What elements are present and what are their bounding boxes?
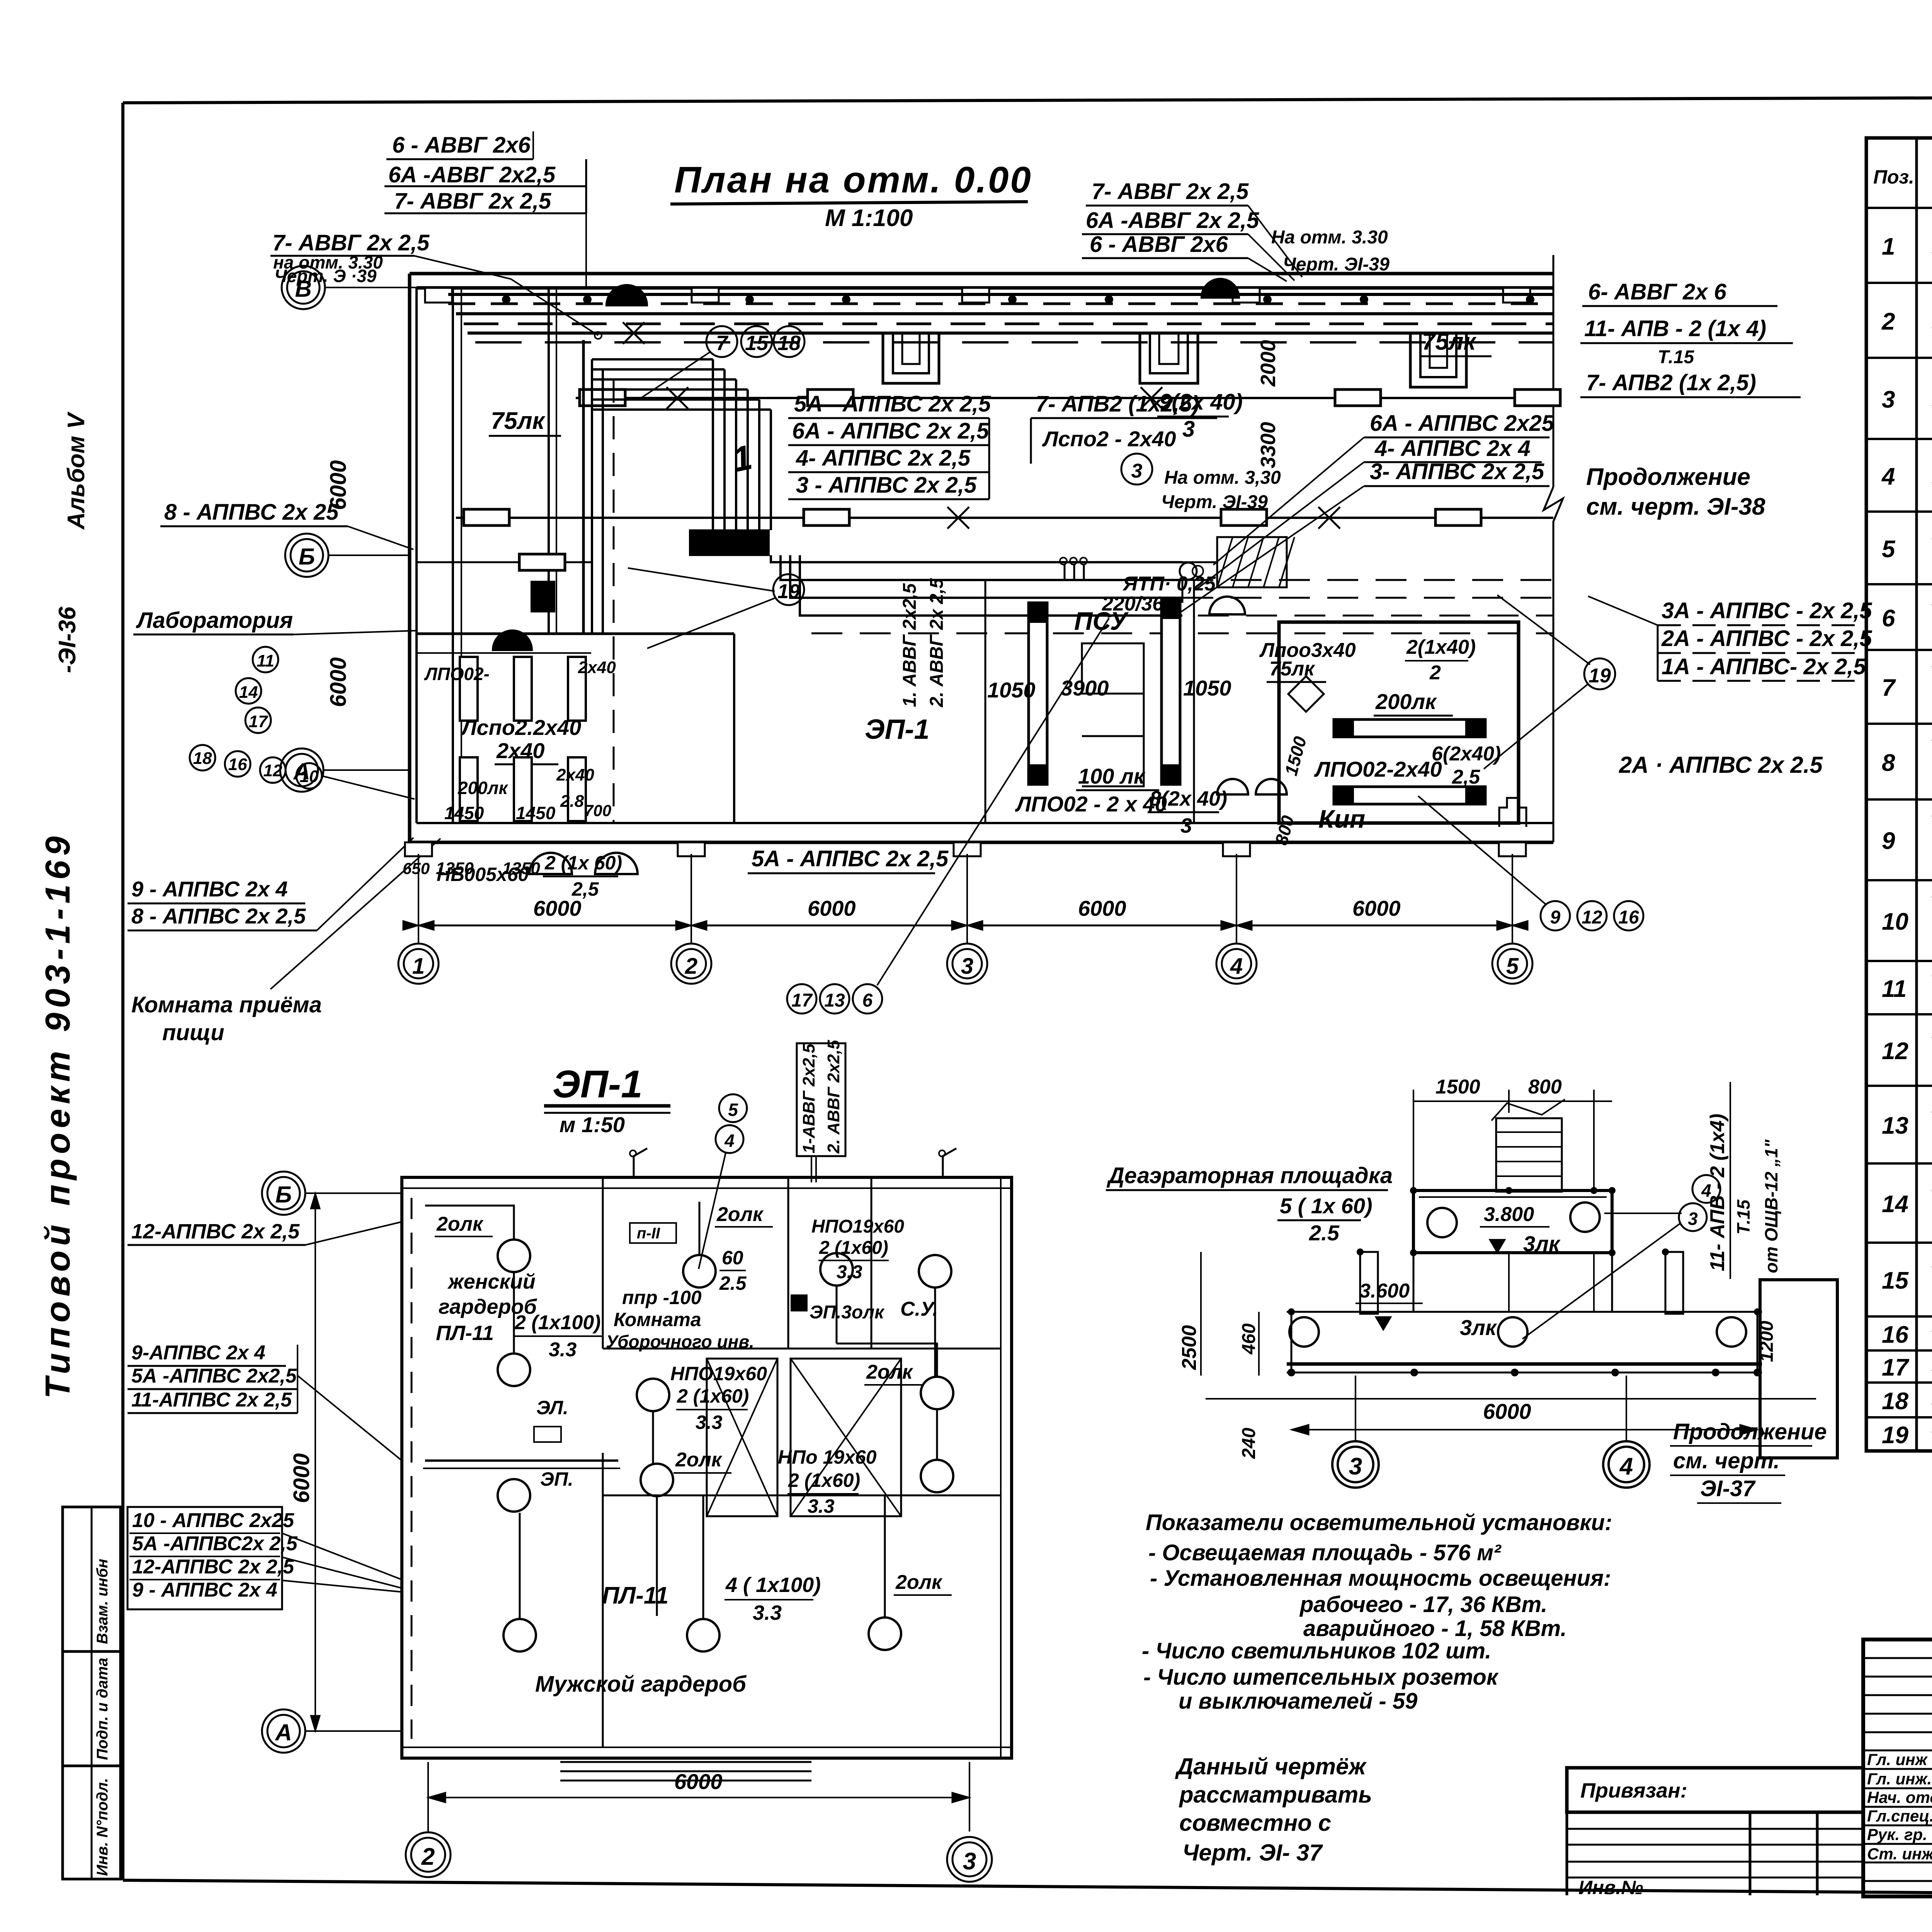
svg-text:200лк: 200лк <box>1375 689 1437 714</box>
svg-text:ПЛ-11: ПЛ-11 <box>602 1582 668 1609</box>
svg-text:3- АППВС 2х 2,5: 3- АППВС 2х 2,5 <box>1370 459 1544 484</box>
svg-text:Мужской гардероб: Мужской гардероб <box>535 1672 747 1697</box>
svg-text:ПЛ-11: ПЛ-11 <box>436 1321 494 1345</box>
label 75лк left room <box>489 408 561 436</box>
svg-text:НБ005х60: НБ005х60 <box>437 864 529 885</box>
svg-text:650: 650 <box>403 859 430 878</box>
svg-text:3.3: 3.3 <box>837 1262 862 1282</box>
svg-text:Комната: Комната <box>614 1309 701 1330</box>
svg-text:Типовой проект 903-1-169: Типовой проект 903-1-169 <box>39 832 77 1399</box>
svg-text:6000: 6000 <box>1352 896 1401 920</box>
mid cable label stack (5А 6А 4 3) <box>788 391 991 499</box>
grid circle 2 <box>406 1832 451 1877</box>
deaerator grid circles 3 and 4 <box>1332 1376 1650 1488</box>
svg-text:6000: 6000 <box>674 1769 723 1794</box>
svg-text:совместно с: совместно с <box>1179 1810 1331 1836</box>
svg-text:19: 19 <box>1588 665 1611 687</box>
svg-text:рабочего - 17, 36 КВт.: рабочего - 17, 36 КВт. <box>1299 1592 1548 1617</box>
grid circle А (ЭП-1) <box>262 1709 402 1753</box>
КИП lamp bars <box>1334 719 1485 804</box>
svg-text:9 - АППВС 2х 4: 9 - АППВС 2х 4 <box>132 1579 277 1601</box>
svg-text:17: 17 <box>249 712 269 731</box>
junction dots on wiring band <box>502 295 1534 304</box>
stairs bottom <box>560 1762 811 1781</box>
svg-text:9(2х 40): 9(2х 40) <box>1159 389 1243 415</box>
svg-text:3.3: 3.3 <box>753 1601 782 1624</box>
svg-text:6- АВВГ 2х 6: 6- АВВГ 2х 6 <box>1588 279 1727 304</box>
svg-text:1050: 1050 <box>1183 676 1231 700</box>
svg-text:от ОЩВ-12 „1": от ОЩВ-12 „1" <box>1761 1139 1781 1273</box>
svg-text:18: 18 <box>1882 1388 1908 1415</box>
dashed wires to right rooms <box>811 616 1553 633</box>
chimney / ladder <box>1492 1099 1565 1192</box>
svg-text:Рук. гр.: Рук. гр. <box>1867 1825 1927 1844</box>
svg-text:2. АВВГ 2х2,5: 2. АВВГ 2х2,5 <box>824 1040 843 1154</box>
svg-text:3: 3 <box>963 1848 976 1875</box>
svg-text:3: 3 <box>1182 417 1195 442</box>
svg-text:9-АППВС 2х 4: 9-АППВС 2х 4 <box>131 1342 265 1364</box>
svg-text:18: 18 <box>193 749 212 768</box>
svg-text:На отм. 3.30: На отм. 3.30 <box>1271 227 1388 248</box>
svg-text:11- АПВ - 2 (1х 4): 11- АПВ - 2 (1х 4) <box>1584 316 1766 341</box>
top-left cable label stack <box>384 131 586 288</box>
dims 1500 800 vertical <box>1271 734 1310 847</box>
table header text <box>1873 145 1932 210</box>
svg-text:-ЭI-36: -ЭI-36 <box>54 606 81 673</box>
svg-text:1450: 1450 <box>444 803 484 823</box>
svg-text:Уборочного инв.: Уборочного инв. <box>606 1332 754 1352</box>
svg-text:220/36: 220/36 <box>1102 593 1164 615</box>
circles 9 12 16 <box>1418 796 1643 930</box>
svg-text:17: 17 <box>1882 1354 1909 1381</box>
svg-text:19: 19 <box>1882 1422 1908 1449</box>
Продолжение см. черт. ЭI-38 <box>1586 464 1765 520</box>
label Комната приёма пищи <box>131 838 440 1045</box>
svg-text:14: 14 <box>239 683 258 702</box>
diamond symbol <box>1288 676 1324 712</box>
grid circle Б <box>285 534 410 577</box>
svg-text:16: 16 <box>1882 1321 1908 1348</box>
svg-text:3: 3 <box>1688 1209 1698 1229</box>
svg-text:Черт. Э ·39: Черт. Э ·39 <box>274 266 377 286</box>
svg-text:12: 12 <box>1882 1038 1908 1065</box>
label 8-АППВС 2x25 <box>160 500 413 549</box>
label 7-АПВ2 (1х2,5) <box>1031 391 1217 464</box>
svg-text:3: 3 <box>1882 386 1895 413</box>
panel ЭП-1 black box <box>690 530 769 555</box>
svg-text:700: 700 <box>584 801 611 820</box>
svg-text:см. черт. ЭI-38: см. черт. ЭI-38 <box>1586 493 1765 520</box>
svg-text:А: А <box>274 1719 292 1745</box>
svg-text:7- АВВГ 2х 2,5: 7- АВВГ 2х 2,5 <box>394 189 551 214</box>
svg-text:2олк: 2олк <box>675 1449 723 1471</box>
svg-text:Гл. инж.пр: Гл. инж.пр <box>1867 1770 1932 1788</box>
svg-text:рассматривать: рассматривать <box>1179 1782 1372 1808</box>
5А-АППВС 2x2,5 bottom label <box>748 846 949 873</box>
labels right of break: 6-АВВГ 2x6 / 11-АПВ / 7-АПВ2 <box>1580 279 1801 397</box>
svg-text:4- АППВС 2х 2,5: 4- АППВС 2х 2,5 <box>796 446 971 471</box>
privyazan box <box>1567 1768 1863 1898</box>
grid circle Б (ЭП-1) <box>262 1172 402 1215</box>
svg-text:женский: женский <box>447 1270 536 1293</box>
Продолжение см черт ЭI-37 <box>1670 1419 1827 1503</box>
svg-text:3.800: 3.800 <box>1484 1203 1534 1226</box>
deaerator left dims <box>1178 1252 1816 1459</box>
X-crossed shafts <box>707 1359 901 1516</box>
grid circle 3 <box>947 1837 992 1882</box>
svg-text:1500: 1500 <box>1435 1076 1480 1098</box>
svg-text:2.5: 2.5 <box>1309 1221 1340 1245</box>
п-II boxed label <box>630 1223 676 1243</box>
svg-text:3лк: 3лк <box>1460 1315 1497 1340</box>
svg-text:4- АППВС 2х 4: 4- АППВС 2х 4 <box>1374 436 1531 461</box>
svg-text:6А -АВВГ 2х 2,5: 6А -АВВГ 2х 2,5 <box>1086 208 1259 233</box>
svg-text:1: 1 <box>412 954 425 979</box>
svg-text:8: 8 <box>1882 750 1895 776</box>
КИП labels <box>1314 689 1501 833</box>
svg-text:Черт. ЭI-39: Черт. ЭI-39 <box>1161 492 1268 512</box>
arc lamps below lab <box>529 853 572 874</box>
svg-text:3: 3 <box>1131 460 1143 482</box>
3.800 mark <box>1480 1203 1561 1256</box>
svg-text:6 - АВВГ 2х6: 6 - АВВГ 2х6 <box>392 133 531 158</box>
ПСУ labels <box>987 573 1231 837</box>
svg-text:Комната приёма: Комната приёма <box>131 992 322 1017</box>
ЭП-1 wall hooks <box>630 1148 956 1177</box>
svg-text:800: 800 <box>1528 1076 1562 1098</box>
rotated label 11-АПВ-2(1x4) <box>1706 1082 1781 1279</box>
svg-text:7: 7 <box>1882 675 1896 701</box>
svg-text:2.8: 2.8 <box>560 792 584 811</box>
svg-text:НПО19х60: НПО19х60 <box>811 1216 904 1237</box>
svg-text:Кип: Кип <box>1318 804 1365 833</box>
svg-text:Подп. и дата: Подп. и дата <box>94 1658 111 1760</box>
svg-text:Т.15: Т.15 <box>1658 347 1695 367</box>
svg-text:4: 4 <box>724 1131 735 1151</box>
lab door black rect <box>531 582 554 612</box>
title block outer <box>1863 1639 1932 1896</box>
svg-text:12: 12 <box>1582 907 1602 928</box>
parts table grid <box>1866 138 1932 1451</box>
НБ005x60 label <box>437 852 622 900</box>
svg-text:В: В <box>295 276 311 302</box>
wall pilasters top <box>425 288 1530 303</box>
svg-text:4: 4 <box>1619 1453 1633 1480</box>
small circles 18 16 12 10 <box>190 745 415 799</box>
svg-text:2А · АППВС 2х 2.5: 2А · АППВС 2х 2.5 <box>1619 752 1823 778</box>
svg-text:17: 17 <box>791 990 813 1011</box>
small circles 11 14 17 <box>236 647 278 733</box>
svg-text:7- АПВ2 (1х 2,5): 7- АПВ2 (1х 2,5) <box>1586 370 1756 395</box>
plan title <box>670 159 1032 231</box>
svg-text:3300: 3300 <box>1257 422 1280 468</box>
svg-text:4 ( 1х100): 4 ( 1х100) <box>725 1573 821 1597</box>
svg-text:см. черт.: см. черт. <box>1673 1448 1780 1473</box>
svg-text:6 - АВВГ 2х6: 6 - АВВГ 2х6 <box>1090 232 1228 257</box>
lab lamp rects row A <box>417 653 591 721</box>
svg-text:3лк: 3лк <box>1523 1231 1561 1256</box>
black square ЭП <box>791 1295 807 1311</box>
lamp row 2 line <box>456 509 1553 526</box>
svg-text:6000: 6000 <box>326 657 351 707</box>
svg-text:3.3: 3.3 <box>696 1412 723 1433</box>
ЭП-1 plan walls <box>402 1177 1012 1758</box>
svg-text:Деаэраторная площадка: Деаэраторная площадка <box>1106 1163 1393 1188</box>
svg-text:75лк: 75лк <box>1422 328 1477 355</box>
Данный чертёж block <box>1175 1753 1372 1866</box>
svg-text:3: 3 <box>1349 1453 1362 1480</box>
svg-text:11: 11 <box>1882 976 1906 1002</box>
svg-text:2.5: 2.5 <box>719 1272 747 1294</box>
svg-text:2олк: 2олк <box>436 1213 484 1235</box>
svg-text:2 (1х100): 2 (1х100) <box>514 1311 601 1334</box>
svg-text:12-АППВС 2х 2,5: 12-АППВС 2х 2,5 <box>131 1220 300 1243</box>
svg-text:3 - АППВС 2х 2,5: 3 - АППВС 2х 2,5 <box>796 473 977 498</box>
svg-text:М 1:100: М 1:100 <box>825 205 913 231</box>
svg-text:3: 3 <box>961 954 973 979</box>
svg-text:2,5: 2,5 <box>571 878 599 900</box>
svg-text:10: 10 <box>1882 908 1908 935</box>
svg-text:11-АППВС 2х 2,5: 11-АППВС 2х 2,5 <box>131 1389 292 1411</box>
svg-text:14: 14 <box>1882 1191 1908 1218</box>
svg-text:ЭП-1: ЭП-1 <box>553 1063 643 1106</box>
svg-text:Б: Б <box>299 544 315 570</box>
top wiring band <box>448 294 1553 387</box>
top plan walls <box>410 274 1553 842</box>
table rows text <box>1881 212 1932 1456</box>
label 7-АВВГ 2x2,5 на отм 3.30 <box>270 230 602 339</box>
svg-text:ЭП-1: ЭП-1 <box>865 714 930 745</box>
label 9(2x40)/3 <box>1157 389 1243 442</box>
deaerator junction dots <box>1287 1187 1761 1376</box>
svg-text:2(1х40): 2(1х40) <box>1406 636 1476 658</box>
ЭП-1 title <box>544 1063 670 1137</box>
svg-text:8 - АППВС 2х 25: 8 - АППВС 2х 25 <box>164 500 339 525</box>
svg-text:1-АВВГ 2х2,5: 1-АВВГ 2х2,5 <box>799 1044 818 1153</box>
svg-text:ЭП.: ЭП. <box>540 1468 573 1490</box>
svg-text:2000: 2000 <box>1257 340 1280 387</box>
19 circle right <box>1484 595 1615 769</box>
svg-text:3А - АППВС - 2х 2,5: 3А - АППВС - 2х 2,5 <box>1662 598 1872 623</box>
3.600 mark <box>1355 1280 1497 1340</box>
X transition marks <box>623 322 1340 529</box>
19 circle left <box>628 568 804 648</box>
svg-text:2: 2 <box>1881 308 1895 335</box>
svg-text:5А - АППВС 2х 2,5: 5А - АППВС 2х 2,5 <box>794 391 991 417</box>
svg-text:2 (1х60): 2 (1х60) <box>788 1469 860 1491</box>
svg-text:2 (1х60): 2 (1х60) <box>819 1238 888 1258</box>
КИП room walls <box>1279 622 1519 823</box>
ЯТП riser <box>1060 558 1203 603</box>
svg-text:Альбом V: Альбом V <box>63 411 90 530</box>
bottom dim 6000 (ЭП-1) <box>428 1762 969 1832</box>
svg-text:ЛПО02 - 2 х 40: ЛПО02 - 2 х 40 <box>1015 792 1167 816</box>
lab label <box>133 608 417 634</box>
svg-text:- Установленная мощность: - Установленная мощность освещения: <box>1150 1566 1611 1591</box>
svg-text:5А - АППВС 2х 2,5: 5А - АППВС 2х 2,5 <box>752 846 949 871</box>
bottom dimension line <box>403 854 1528 943</box>
ПСУ vertical lamp bars <box>1029 599 1180 784</box>
svg-text:- Число светильников 1: - Число светильников 102 шт. <box>1142 1638 1491 1663</box>
lamp row 1 line <box>576 389 1560 406</box>
svg-text:75лк: 75лк <box>1269 658 1315 680</box>
pedestal symbol <box>1499 798 1526 827</box>
svg-text:16: 16 <box>1618 907 1639 928</box>
right panel box <box>1760 1280 1837 1458</box>
vertical dim 6000 (ЭП-1) <box>289 1193 320 1731</box>
grid circles 1-5 <box>398 944 1532 984</box>
hatch box (ОЩВ) <box>1217 537 1294 587</box>
svg-text:2: 2 <box>685 954 697 979</box>
half disc lamps mid <box>1209 597 1245 614</box>
svg-text:4: 4 <box>1881 463 1895 490</box>
ЭП-1 wiring <box>423 1202 937 1619</box>
right break line of plan <box>1544 255 1563 842</box>
svg-text:8 - АППВС 2х 2,5: 8 - АППВС 2х 2,5 <box>131 904 306 928</box>
grid circle В <box>282 266 444 309</box>
svg-text:НПо 19х60: НПо 19х60 <box>778 1446 877 1468</box>
svg-text:ЭП.3олк: ЭП.3олк <box>810 1302 885 1323</box>
svg-text:6000: 6000 <box>289 1453 314 1503</box>
svg-text:12: 12 <box>264 761 282 780</box>
svg-text:1050: 1050 <box>987 678 1036 702</box>
svg-text:Привязан:: Привязан: <box>1580 1779 1687 1802</box>
svg-text:2х40: 2х40 <box>556 765 594 784</box>
circles 7 15 18 <box>640 326 804 399</box>
svg-text:6А - АППВС 2х25: 6А - АППВС 2х25 <box>1370 411 1554 436</box>
svg-text:Показатели осветительной уст: Показатели осветительной установки: <box>1146 1510 1612 1535</box>
svg-text:8(2х 40): 8(2х 40) <box>1150 787 1227 810</box>
svg-text:1450: 1450 <box>516 803 556 823</box>
svg-text:Данный чертёж: Данный чертёж <box>1175 1753 1367 1779</box>
svg-text:13: 13 <box>824 990 845 1011</box>
svg-text:Продолжение: Продолжение <box>1673 1419 1827 1444</box>
lab extra lamp row <box>417 554 591 570</box>
svg-text:4: 4 <box>1701 1180 1711 1201</box>
bottom wall pilasters <box>405 842 1526 856</box>
svg-text:4: 4 <box>1230 954 1243 979</box>
svg-text:6А -АВВГ 2х2,5: 6А -АВВГ 2х2,5 <box>388 162 556 187</box>
svg-text:ЛПО02-: ЛПО02- <box>424 664 490 684</box>
svg-text:18: 18 <box>777 332 801 355</box>
svg-text:Гл.спец.: Гл.спец. <box>1867 1807 1932 1825</box>
svg-text:Поз.: Поз. <box>1873 166 1914 188</box>
svg-text:5 ( 1х 60): 5 ( 1х 60) <box>1280 1194 1372 1218</box>
deaerator title <box>1106 1163 1393 1245</box>
svg-text:19: 19 <box>777 580 800 603</box>
svg-text:6000: 6000 <box>808 896 856 920</box>
label 75лк right <box>1420 328 1492 356</box>
svg-text:Б: Б <box>276 1182 292 1207</box>
svg-text:5А -АППВС 2х2,5: 5А -АППВС 2х2,5 <box>131 1365 297 1387</box>
svg-text:7: 7 <box>716 332 729 355</box>
svg-text:п-II: п-II <box>637 1225 660 1242</box>
half-disc emergency lamps top <box>607 285 647 305</box>
svg-text:и выключателей - 59: и выключателей - 59 <box>1179 1689 1417 1714</box>
svg-text:Инв. N°подл.: Инв. N°подл. <box>94 1778 111 1876</box>
svg-text:75лк: 75лк <box>491 408 546 434</box>
svg-text:2 (1х60): 2 (1х60) <box>677 1385 749 1407</box>
svg-text:На отм. 3,30: На отм. 3,30 <box>1164 468 1281 488</box>
svg-text:9 - АППВС 2х 4: 9 - АППВС 2х 4 <box>131 877 288 901</box>
left outside labels (ЭП-1) <box>128 1220 402 1245</box>
svg-text:- Освещаемая площадь - 576: - Освещаемая площадь - 576 м² <box>1148 1540 1502 1565</box>
left margin stamp boxes <box>63 1507 121 1879</box>
svg-text:6(2х40): 6(2х40) <box>1432 743 1501 765</box>
На отм 3.30 черт ЭI-39 with circle 3 <box>1121 454 1281 512</box>
svg-text:7- АВВГ 2х 2,5: 7- АВВГ 2х 2,5 <box>272 230 430 255</box>
svg-text:2500: 2500 <box>1178 1325 1201 1370</box>
svg-text:ЛПО02-2х40: ЛПО02-2х40 <box>1314 757 1442 781</box>
svg-text:12-АППВС 2х 2,5: 12-АППВС 2х 2,5 <box>132 1556 294 1578</box>
svg-text:3: 3 <box>1180 814 1192 837</box>
vertical АВВГ labels near ЭП-1 <box>900 578 947 707</box>
svg-text:5: 5 <box>1506 954 1519 979</box>
svg-text:11: 11 <box>257 651 274 670</box>
svg-text:аварийного - 1, 58 КВт.: аварийного - 1, 58 КВт. <box>1303 1616 1567 1641</box>
svg-text:2 (1х 60): 2 (1х 60) <box>544 852 622 874</box>
circles 5 and 4 over ЭП-1 <box>699 1094 747 1269</box>
Лспо2 label left <box>460 715 581 790</box>
deaerator structure <box>1287 1190 1762 1372</box>
ПСУ room walls <box>985 580 1194 823</box>
deaerator lamps <box>1289 1202 1746 1347</box>
deaerator bottom dim 6000 <box>1291 1399 1757 1435</box>
svg-text:460: 460 <box>1239 1323 1259 1355</box>
svg-text:3.600: 3.600 <box>1359 1280 1410 1302</box>
svg-text:пищи: пищи <box>162 1020 224 1045</box>
bundle from panel to right <box>771 555 1553 616</box>
svg-text:2олк: 2олк <box>866 1361 913 1383</box>
svg-text:16: 16 <box>228 755 247 774</box>
svg-text:7- АВВГ 2х 2,5: 7- АВВГ 2х 2,5 <box>1092 179 1249 204</box>
svg-text:План на отм. 0.00: План на отм. 0.00 <box>674 159 1032 201</box>
svg-text:Продолжение: Продолжение <box>1586 464 1750 490</box>
top right labels 7-АВВГ etc <box>1082 179 1389 281</box>
ЭП-1 interior walls <box>603 1177 1001 1747</box>
svg-text:2х40: 2х40 <box>578 658 616 677</box>
svg-text:3900: 3900 <box>1061 676 1109 700</box>
svg-text:Лаборатория: Лаборатория <box>136 608 293 633</box>
svg-text:3.3: 3.3 <box>549 1338 577 1361</box>
svg-text:1. АВВГ 2х2,5: 1. АВВГ 2х2,5 <box>900 583 920 707</box>
svg-text:15: 15 <box>745 332 769 355</box>
svg-text:2: 2 <box>421 1844 435 1870</box>
svg-text:240: 240 <box>1239 1428 1259 1459</box>
svg-text:Инв.№: Инв.№ <box>1578 1877 1643 1898</box>
vertical bundle to panel <box>583 340 771 823</box>
svg-text:Черт. ЭI-39: Черт. ЭI-39 <box>1283 254 1389 275</box>
svg-text:2олк: 2олк <box>716 1203 764 1226</box>
svg-text:6000: 6000 <box>1078 896 1126 920</box>
svg-text:ппр -100: ппр -100 <box>622 1287 702 1308</box>
lab labels and dims <box>403 658 616 878</box>
stack 6А 4 3 right <box>1179 411 1554 614</box>
ЭП-1 room labels <box>435 1203 952 1697</box>
svg-text:2олк: 2олк <box>895 1571 943 1594</box>
svg-text:Ст. инж: Ст. инж <box>1867 1845 1932 1863</box>
svg-text:ЭЛ.: ЭЛ. <box>536 1397 568 1418</box>
svg-text:10 - АППВС 2х25: 10 - АППВС 2х25 <box>132 1509 294 1532</box>
КИП upper labels <box>1259 636 1476 684</box>
lab lamp rects row B <box>460 757 586 821</box>
svg-text:- Число штепсельных роз: - Число штепсельных розеток <box>1143 1665 1499 1690</box>
lab walls <box>417 288 734 823</box>
grid circle А <box>280 748 410 792</box>
svg-text:5: 5 <box>1882 536 1896 563</box>
svg-text:100 лк: 100 лк <box>1078 764 1146 788</box>
svg-text:200лк: 200лк <box>457 778 509 798</box>
